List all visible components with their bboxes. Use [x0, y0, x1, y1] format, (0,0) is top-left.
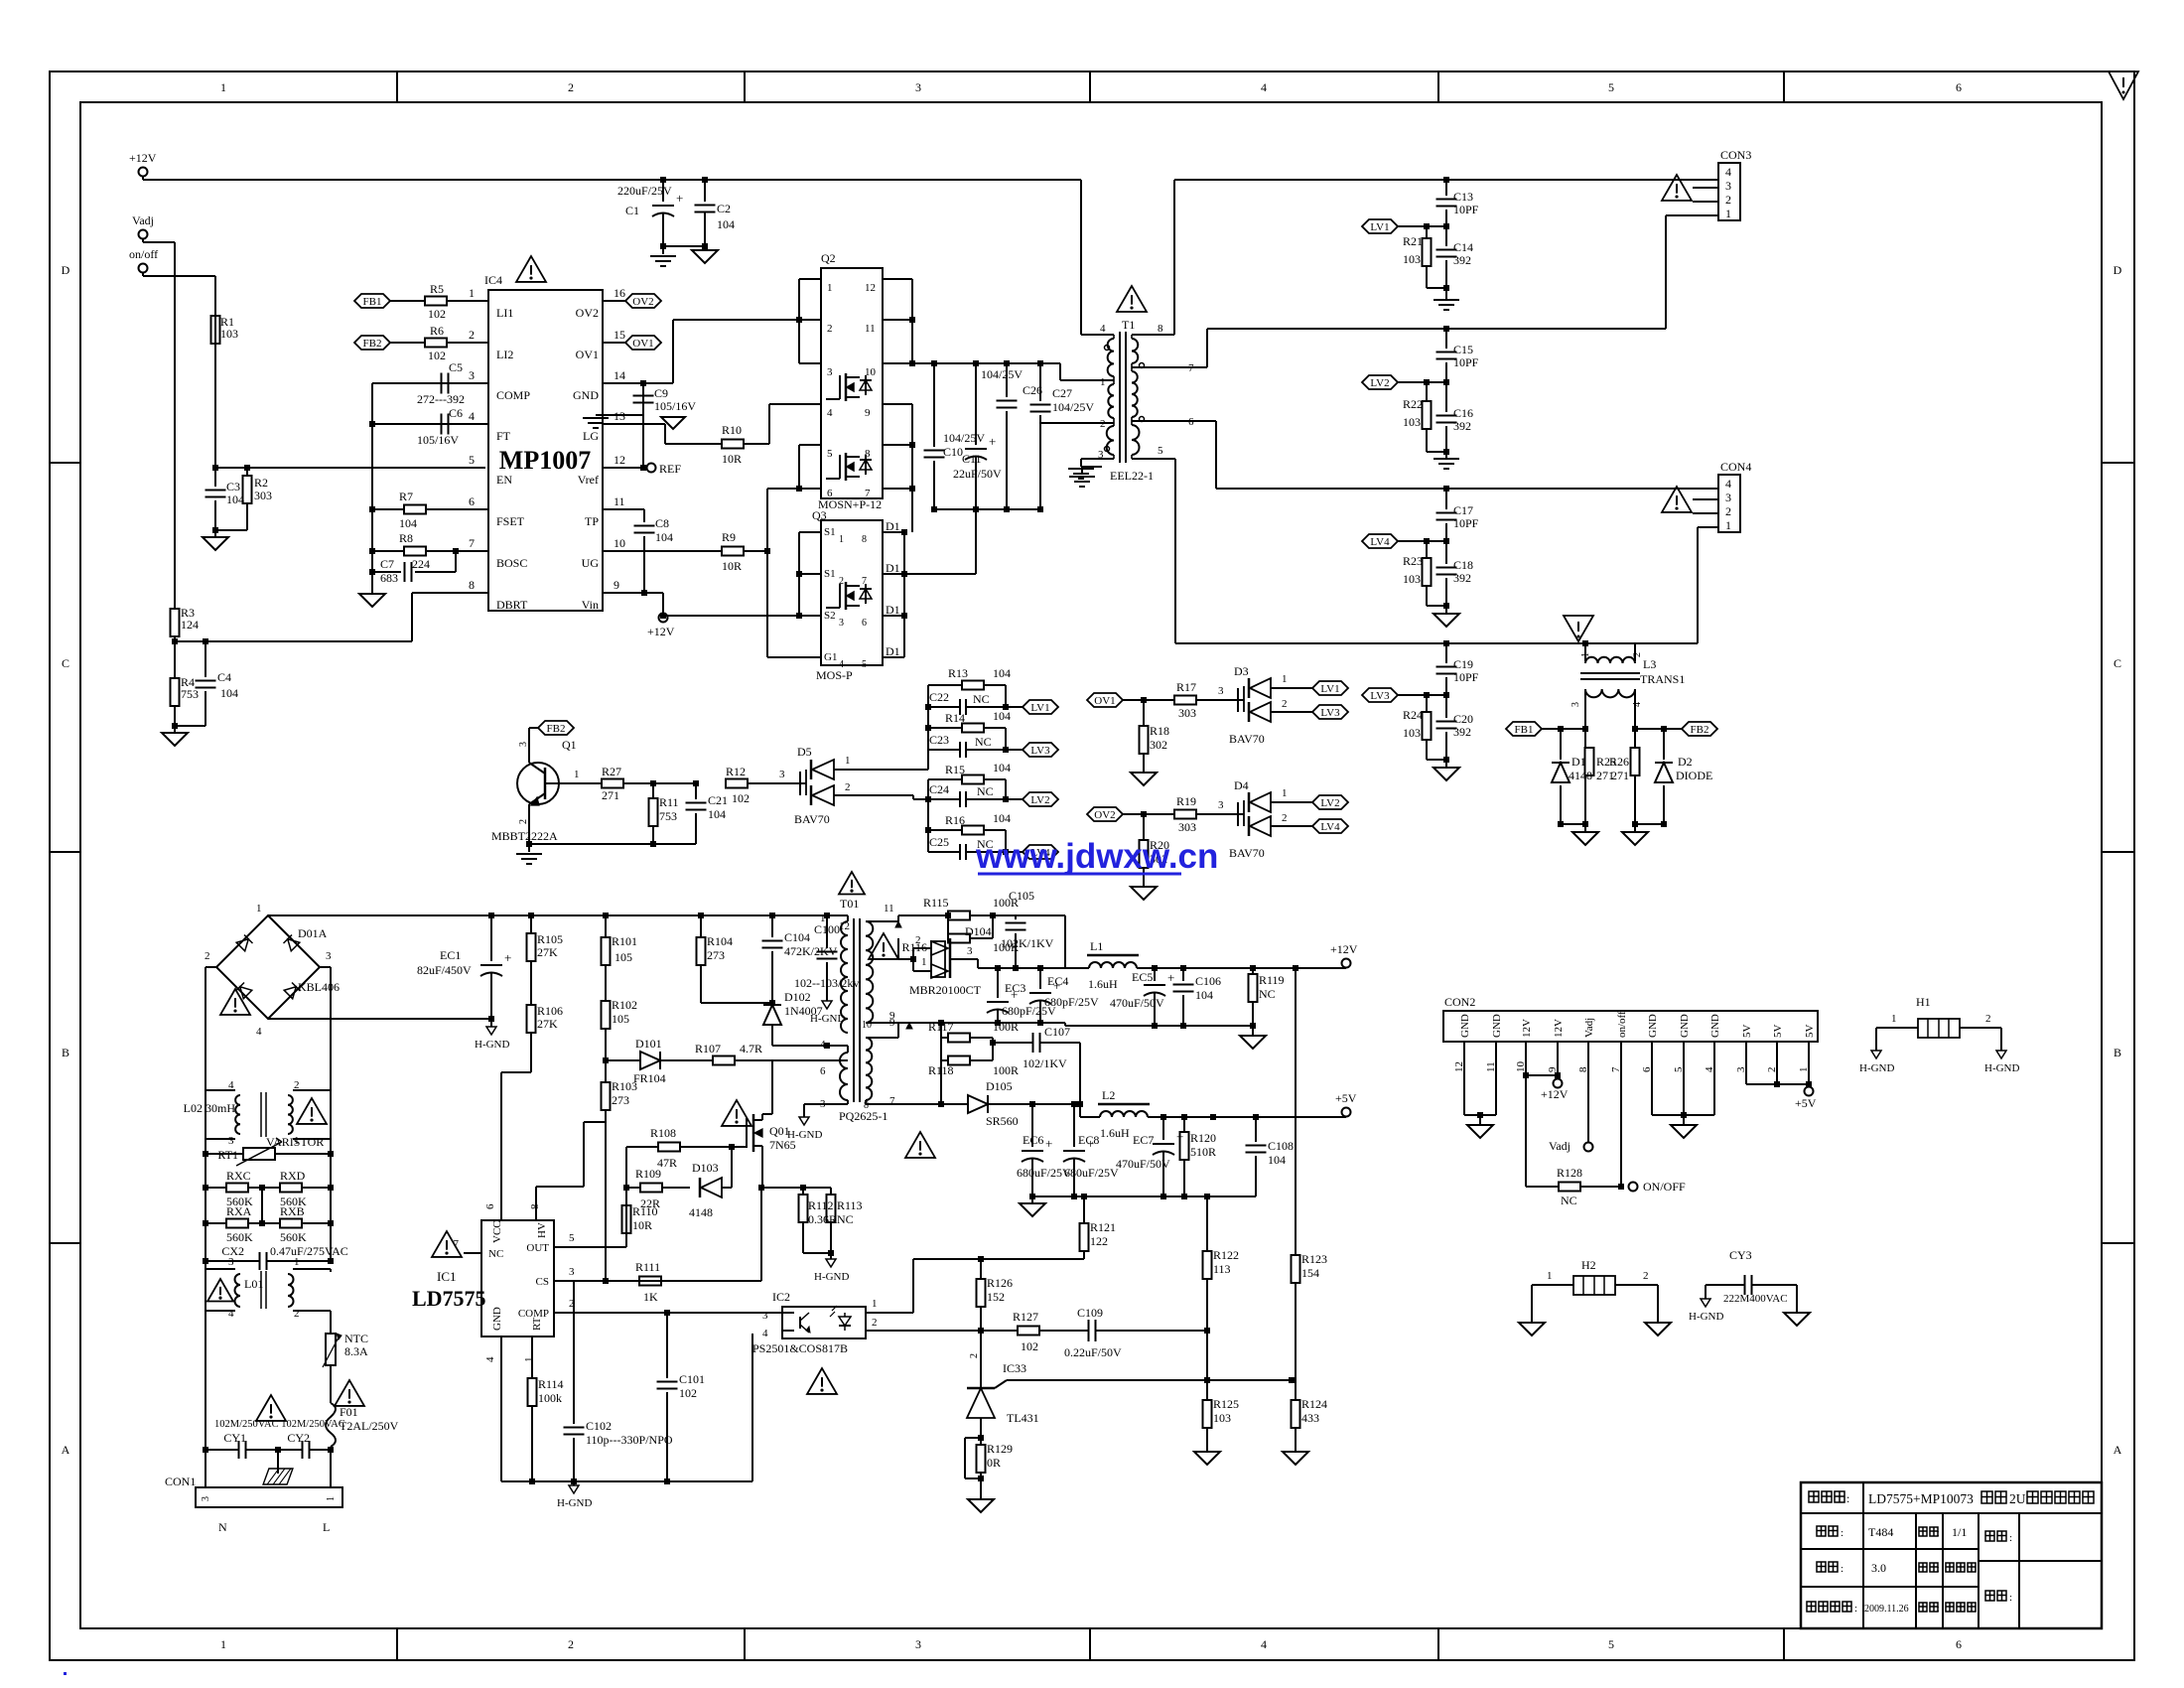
resistor R121 122 — [1083, 1196, 1085, 1223]
svg-text:1: 1 — [326, 1496, 337, 1501]
wire CON2 pin10 to R128 — [1525, 1075, 1527, 1187]
svg-text:R9: R9 — [722, 530, 736, 544]
svg-text:LV1: LV1 — [1030, 702, 1049, 714]
resistor R103 273 — [605, 1060, 607, 1082]
resistor R117 100R — [938, 1020, 944, 1026]
ground chassis under R20 — [1131, 887, 1157, 900]
svg-text:683: 683 — [380, 571, 398, 585]
svg-text:CY3: CY3 — [1729, 1248, 1752, 1262]
left bus upper divider — [927, 685, 929, 770]
svg-text:D102: D102 — [784, 990, 811, 1004]
svg-text:3: 3 — [915, 80, 921, 94]
svg-text:303: 303 — [1178, 706, 1196, 720]
svg-text:2: 2 — [294, 1079, 300, 1091]
svg-text:LV2: LV2 — [1370, 377, 1389, 389]
svg-text:R12: R12 — [726, 765, 746, 778]
resistor R15 104 — [928, 778, 962, 780]
svg-text:C5: C5 — [449, 360, 463, 374]
svg-text:2: 2 — [568, 1637, 574, 1651]
svg-text:EN: EN — [496, 473, 512, 487]
net tag FB2 to LI2 — [354, 336, 390, 350]
ground chassis under EC6 — [1031, 1196, 1033, 1203]
net tag LV2 (divider) — [1005, 779, 1007, 799]
warning triangle mid — [256, 1395, 286, 1421]
svg-text:L: L — [323, 1520, 330, 1534]
svg-text:D01A: D01A — [298, 926, 328, 940]
svg-text:302: 302 — [1150, 738, 1167, 752]
svg-text:OV2: OV2 — [1094, 809, 1115, 821]
svg-text:4: 4 — [469, 409, 475, 423]
capacitor C18 392 — [1445, 541, 1447, 564]
H-GND under EC1 — [490, 1019, 492, 1027]
svg-text:S1: S1 — [824, 568, 836, 580]
svg-text:LV4: LV4 — [1370, 536, 1390, 548]
svg-text:5V: 5V — [1804, 1025, 1816, 1039]
net tag LV3 (divider) — [1005, 728, 1007, 750]
svg-text:H-GND: H-GND — [475, 1039, 509, 1051]
svg-text:C19: C19 — [1453, 657, 1473, 671]
capacitor C22 NC — [928, 706, 959, 708]
svg-text:UG: UG — [582, 556, 600, 570]
svg-text:680uF/25V: 680uF/25V — [1017, 1166, 1071, 1180]
svg-text:R23: R23 — [1403, 554, 1423, 568]
svg-text:7: 7 — [865, 488, 871, 499]
svg-text:R106: R106 — [537, 1004, 563, 1018]
svg-text:LV1: LV1 — [1370, 221, 1389, 233]
wire C3-R2 join — [215, 529, 247, 531]
ground earth right of C11 — [1082, 466, 1102, 468]
svg-text:+: + — [1167, 970, 1174, 985]
svg-text:104: 104 — [1195, 988, 1213, 1002]
svg-text:C101: C101 — [679, 1372, 705, 1386]
svg-text:B: B — [62, 1046, 69, 1059]
capacitor EC8 680uF/25V — [1073, 1104, 1075, 1147]
wire T01 pin7 row — [865, 1100, 867, 1104]
ground earth + chassis under GND — [596, 414, 643, 416]
svg-text:Q2: Q2 — [821, 251, 836, 265]
svg-text:470uF/50V: 470uF/50V — [1110, 996, 1164, 1010]
warning triangle near T01 secondary — [869, 933, 898, 959]
svg-text:on/off: on/off — [129, 247, 158, 261]
svg-text:MBR20100CT: MBR20100CT — [909, 983, 982, 997]
svg-text:4: 4 — [762, 1328, 768, 1339]
svg-text:3: 3 — [326, 950, 332, 962]
capacitor EC5 470uF/50V — [1154, 968, 1156, 981]
svg-text:D103: D103 — [692, 1161, 719, 1175]
wire R26-D2 join + ground — [1635, 823, 1664, 825]
svg-text:GND: GND — [1459, 1014, 1471, 1038]
ground chassis under CY3 right — [1784, 1313, 1810, 1326]
wire L01 pin4 down to CON1 — [205, 1311, 206, 1487]
resistor R4 — [171, 678, 180, 706]
capacitor C1 220uF/25V — [660, 177, 666, 183]
svg-text:271: 271 — [1611, 769, 1629, 782]
svg-text:RT: RT — [531, 1317, 543, 1331]
svg-text:Q3: Q3 — [812, 508, 827, 522]
svg-text:12V: 12V — [1553, 1019, 1565, 1038]
svg-text:PQ2625-1: PQ2625-1 — [839, 1109, 887, 1123]
wire CON2 GND 6,5,4 — [1651, 1067, 1653, 1115]
svg-text:124: 124 — [181, 618, 199, 632]
svg-text:C7: C7 — [380, 557, 394, 571]
svg-text:H-GND: H-GND — [814, 1271, 849, 1283]
svg-text:152: 152 — [987, 1290, 1005, 1304]
warning triangle left of CON4 — [1662, 487, 1692, 512]
svg-text:FB2: FB2 — [547, 723, 566, 735]
svg-text:9: 9 — [889, 1010, 895, 1022]
svg-text:4: 4 — [1261, 1637, 1267, 1651]
wire T1 pin2 stub — [1040, 422, 1114, 424]
svg-text:MBBT2222A: MBBT2222A — [491, 829, 558, 843]
svg-text:6: 6 — [1956, 1637, 1962, 1651]
svg-text:4: 4 — [820, 1039, 826, 1051]
capacitor C107 102/1KV — [993, 1042, 1032, 1044]
resistor R11 — [652, 783, 654, 798]
svg-text:C23: C23 — [929, 733, 949, 747]
svg-text:104: 104 — [220, 686, 238, 700]
svg-text:S1: S1 — [824, 526, 836, 538]
svg-text:NTC: NTC — [344, 1332, 368, 1345]
svg-text:16: 16 — [614, 286, 625, 300]
svg-text:FB2: FB2 — [363, 338, 382, 350]
svg-text:102: 102 — [679, 1386, 697, 1400]
wire CON4 pin1 down to rail4 — [1698, 526, 1718, 528]
capacitor C17 10PF — [1443, 486, 1449, 492]
svg-text:R26: R26 — [1609, 755, 1629, 769]
resistor R112 0.36R — [802, 1188, 804, 1195]
svg-text:D1: D1 — [886, 603, 900, 617]
svg-text:273: 273 — [612, 1093, 629, 1107]
svg-text:0.36R: 0.36R — [808, 1212, 837, 1226]
capacitor C16 392 — [1445, 382, 1447, 412]
svg-text:102: 102 — [428, 349, 446, 362]
svg-text:R109: R109 — [635, 1167, 661, 1181]
resistor R114 100k — [528, 1378, 537, 1406]
IC1 pin3 CS wire — [554, 1280, 761, 1282]
CON3 stubs pins 3,2 — [1693, 187, 1718, 189]
svg-text:C18: C18 — [1453, 558, 1473, 572]
svg-text:392: 392 — [1453, 419, 1471, 433]
svg-text:C8: C8 — [655, 516, 669, 530]
wire T01 pin4 — [827, 1045, 848, 1047]
Q2 upper mosfet symbol — [845, 373, 848, 401]
svg-text:104: 104 — [993, 709, 1011, 723]
svg-text:EC5: EC5 — [1132, 970, 1153, 984]
svg-text:1/1: 1/1 — [1952, 1525, 1967, 1539]
svg-text:1: 1 — [1547, 1270, 1553, 1282]
resistor R7 — [369, 506, 375, 512]
resistor R118 100R — [940, 1038, 942, 1060]
wire Q3 drains D1 — [883, 531, 904, 533]
svg-text:C16: C16 — [1453, 406, 1473, 420]
svg-text:3: 3 — [827, 366, 833, 378]
svg-text:303: 303 — [254, 489, 272, 502]
svg-text:FB2: FB2 — [1691, 724, 1709, 736]
svg-text:3: 3 — [1570, 702, 1581, 707]
wire CON2 12V pins — [1525, 1067, 1527, 1075]
svg-text:C3: C3 — [226, 480, 240, 493]
svg-text:4: 4 — [228, 1308, 234, 1320]
svg-text:R15: R15 — [945, 763, 965, 776]
svg-text:GND: GND — [573, 388, 599, 402]
capacitor C101 102 — [666, 1313, 668, 1378]
svg-text:1: 1 — [256, 903, 262, 914]
warning triangle below D105 — [905, 1132, 935, 1158]
svg-text:VARISTOR: VARISTOR — [266, 1135, 324, 1149]
svg-text:C106: C106 — [1195, 974, 1221, 988]
wire rail to T1 pin1 — [1059, 363, 1061, 380]
svg-text:392: 392 — [1453, 253, 1471, 267]
svg-text:NC: NC — [977, 784, 994, 798]
net tag LV1 — [1362, 219, 1398, 233]
wire TL431 ref rail — [1019, 1379, 1292, 1381]
svg-text:100R: 100R — [993, 1063, 1019, 1077]
capacitor C106 104 — [1182, 968, 1184, 981]
svg-text:R5: R5 — [430, 282, 444, 296]
svg-text:510R: 510R — [1190, 1145, 1216, 1159]
svg-text:EC6: EC6 — [1023, 1133, 1043, 1147]
svg-text:KBL406: KBL406 — [298, 980, 340, 994]
svg-text:4148: 4148 — [689, 1205, 713, 1219]
svg-text:CS: CS — [536, 1276, 549, 1288]
svg-text:+12V: +12V — [647, 625, 675, 638]
svg-text:222M400VAC: 222M400VAC — [1723, 1293, 1788, 1305]
left bus lower divider — [927, 779, 929, 852]
svg-text:CY2: CY2 — [287, 1431, 310, 1445]
svg-text:272---392: 272---392 — [417, 392, 465, 406]
wire CON2 pin7 on/off — [1620, 1067, 1622, 1187]
capacitor CY2 — [278, 1449, 302, 1451]
svg-text:H1: H1 — [1916, 995, 1931, 1009]
svg-text:105/16V: 105/16V — [654, 399, 696, 413]
svg-text:8: 8 — [469, 578, 475, 592]
svg-text:LV3: LV3 — [1370, 690, 1390, 702]
resistor R25 — [1584, 729, 1586, 748]
capacitor C26 104/25V — [1006, 363, 1008, 397]
svg-text:1: 1 — [1100, 376, 1106, 388]
wire L=R107 col to Q01 drain — [771, 1060, 773, 1114]
resistor R125 103 — [1206, 1380, 1208, 1400]
svg-text:3: 3 — [518, 742, 529, 747]
svg-text:433: 433 — [1301, 1411, 1319, 1425]
diode D101 FR104 — [606, 1059, 640, 1061]
svg-text:753: 753 — [181, 687, 199, 701]
svg-text:392: 392 — [1453, 725, 1471, 739]
resistor R22 — [1426, 382, 1428, 401]
wire D5 pin1 — [834, 769, 928, 771]
wire bridge pin2 down — [205, 966, 216, 968]
svg-text:2: 2 — [1985, 1013, 1991, 1025]
svg-text:1: 1 — [820, 913, 826, 924]
svg-text:D: D — [2114, 263, 2122, 277]
IC1 pin2 COMP wire — [554, 1312, 782, 1314]
resistor RXB 560K — [262, 1222, 280, 1224]
resistor R12 — [726, 779, 748, 788]
svg-text:RXC: RXC — [226, 1169, 251, 1183]
svg-text:102: 102 — [732, 791, 750, 805]
svg-text:10PF: 10PF — [1453, 355, 1479, 369]
svg-text:D104: D104 — [965, 924, 992, 938]
svg-text:7: 7 — [454, 1238, 460, 1250]
svg-text:10: 10 — [614, 536, 625, 550]
svg-text:C104: C104 — [784, 930, 810, 944]
resistor R104 273 — [700, 915, 702, 937]
svg-text:103: 103 — [1403, 726, 1421, 740]
svg-text:CON2: CON2 — [1444, 995, 1475, 1009]
svg-text:10PF: 10PF — [1453, 516, 1479, 530]
svg-text:0.47uF/275VAC: 0.47uF/275VAC — [270, 1244, 348, 1258]
ground chassis under C20 — [1433, 768, 1459, 780]
svg-text:D1: D1 — [886, 519, 900, 533]
svg-text:D4: D4 — [1234, 778, 1249, 792]
svg-text:R17: R17 — [1176, 680, 1196, 694]
svg-text:CON1: CON1 — [165, 1475, 196, 1488]
svg-text:1: 1 — [872, 1298, 878, 1310]
ground chassis under C18 — [1433, 614, 1459, 627]
svg-text:H-GND: H-GND — [1689, 1311, 1723, 1323]
capacitor C100 102--103/2kv — [824, 913, 830, 918]
svg-text:3: 3 — [228, 1256, 234, 1268]
svg-text:C22: C22 — [929, 690, 949, 704]
svg-text:3: 3 — [469, 368, 475, 382]
resistor R6 — [425, 339, 447, 348]
wire Vref pin12 REF — [603, 467, 646, 469]
capacitor C102 110p---330P/NPO — [573, 1420, 575, 1424]
resistor R13 104 — [928, 684, 962, 686]
svg-text:5: 5 — [1158, 445, 1163, 457]
warning triangle above Q01 — [722, 1100, 751, 1126]
resistor R101 105 — [603, 913, 609, 918]
svg-text:LV3: LV3 — [1320, 707, 1340, 719]
svg-text:R110: R110 — [632, 1204, 658, 1218]
resistor RXD 560K — [262, 1187, 280, 1189]
svg-text:105: 105 — [612, 1012, 629, 1026]
diode D102 1N4007 — [771, 1003, 773, 1005]
svg-text:103: 103 — [1213, 1411, 1231, 1425]
fuse F01 T2AL/250V — [326, 1403, 336, 1447]
net tag LV1 (divider) — [1005, 685, 1007, 707]
svg-text:FB1: FB1 — [363, 296, 382, 308]
ground chassis under C7 column — [371, 572, 373, 594]
capacitor C2 104 — [702, 177, 708, 183]
warning triangle left of bridge — [220, 989, 250, 1015]
svg-text:+: + — [504, 950, 511, 965]
svg-text:BOSC: BOSC — [496, 556, 527, 570]
svg-text:R120: R120 — [1190, 1131, 1216, 1145]
svg-text:C108: C108 — [1268, 1139, 1294, 1153]
warning triangle below IC2 — [807, 1368, 837, 1394]
svg-text:Vadj: Vadj — [1549, 1139, 1570, 1153]
protective earth symbol — [277, 1450, 279, 1474]
svg-text:C1: C1 — [625, 204, 639, 217]
svg-text:R7: R7 — [399, 490, 413, 503]
resistor R20 302 — [1143, 814, 1145, 840]
svg-text:2: 2 — [518, 819, 529, 824]
wire +5V bottom rail — [1032, 1196, 1256, 1197]
svg-text:C20: C20 — [1453, 712, 1473, 726]
svg-text:LD7575: LD7575 — [412, 1286, 486, 1311]
resistor R119 NC — [1252, 968, 1254, 974]
svg-text:C27: C27 — [1052, 386, 1072, 400]
wire T01 pin3 to H-GND — [847, 1100, 849, 1104]
svg-text:R122: R122 — [1213, 1248, 1239, 1262]
wire T1 pin7 to rail y=331 — [1132, 366, 1207, 368]
svg-text:C24: C24 — [929, 782, 949, 796]
svg-text:1: 1 — [845, 755, 851, 767]
net tag OV1 from pin15 — [603, 342, 625, 344]
resistor R3 — [171, 609, 180, 636]
wire +12V bottom rail — [1064, 1023, 1066, 1026]
capacitor C27 104/25V — [1039, 363, 1041, 401]
svg-text:R101: R101 — [612, 934, 637, 948]
svg-text:L2: L2 — [1102, 1088, 1115, 1102]
wire C1-C2 bottom — [663, 245, 705, 247]
svg-text:102K/1KV: 102K/1KV — [1001, 936, 1054, 950]
ground chassis under R18 — [1131, 773, 1157, 785]
wire CON2 GND 12,11 — [1463, 1067, 1465, 1115]
diode D1 4148 — [1560, 729, 1562, 760]
wire Q01 source down to CS — [760, 1188, 762, 1281]
capacitor C25 NC — [928, 851, 959, 853]
svg-text:2009.11.26: 2009.11.26 — [1864, 1604, 1909, 1615]
resistor R113 NC — [830, 1188, 832, 1195]
choke L01 — [205, 1268, 235, 1270]
svg-text:14: 14 — [614, 368, 625, 382]
svg-text::: : — [1854, 1603, 1857, 1615]
Q2 lower mosfet symbol — [845, 453, 848, 481]
resistor R1 — [211, 316, 220, 344]
svg-text:R22: R22 — [1403, 397, 1423, 411]
net tag OV2 from pin16 — [603, 300, 625, 302]
svg-text:OUT: OUT — [526, 1242, 549, 1254]
svg-text:R105: R105 — [537, 932, 563, 946]
svg-text:10PF: 10PF — [1453, 203, 1479, 216]
svg-text:IC1: IC1 — [437, 1269, 457, 1284]
svg-text:10R: 10R — [632, 1218, 652, 1232]
resistor R109 22R — [623, 1185, 629, 1191]
resistor R126 152 — [980, 1259, 982, 1279]
capacitor C104 472K/2KV — [771, 915, 773, 937]
svg-text:6: 6 — [1956, 80, 1962, 94]
resistor R102 105 — [602, 1001, 611, 1029]
resistor R111 1K — [639, 1277, 661, 1286]
svg-text:104/25V: 104/25V — [943, 431, 985, 445]
diode D103 4148 — [699, 1178, 702, 1197]
wire on/off down to EN — [142, 273, 144, 276]
svg-text:1K: 1K — [643, 1290, 658, 1304]
svg-text:L02 30mH: L02 30mH — [184, 1101, 236, 1115]
svg-text:R113: R113 — [837, 1198, 863, 1212]
svg-text:NC: NC — [1259, 987, 1276, 1001]
wire D1-R25 join + grounds — [1561, 823, 1585, 825]
svg-text:+12V: +12V — [1330, 942, 1358, 956]
svg-text::: : — [1937, 1528, 1940, 1539]
wire Vadj down — [142, 239, 144, 242]
capacitor C3 — [214, 468, 216, 487]
resistor R19 303 — [1174, 810, 1196, 819]
svg-text:4: 4 — [256, 1026, 262, 1038]
wire T1 pin8 up to rail2 start — [1132, 334, 1174, 336]
wire T1 pin4 from +12V rail — [1080, 180, 1082, 335]
svg-text:C: C — [2114, 656, 2121, 670]
svg-text:104: 104 — [993, 811, 1011, 825]
ground chassis under C2 — [704, 246, 706, 250]
svg-text:T484: T484 — [1868, 1525, 1893, 1539]
ground chassis under H2 pin2 — [1645, 1323, 1671, 1336]
blue dot bottom left — [64, 1672, 67, 1675]
svg-text:+: + — [989, 434, 996, 449]
title block text 文件名 — [1809, 1491, 1819, 1502]
